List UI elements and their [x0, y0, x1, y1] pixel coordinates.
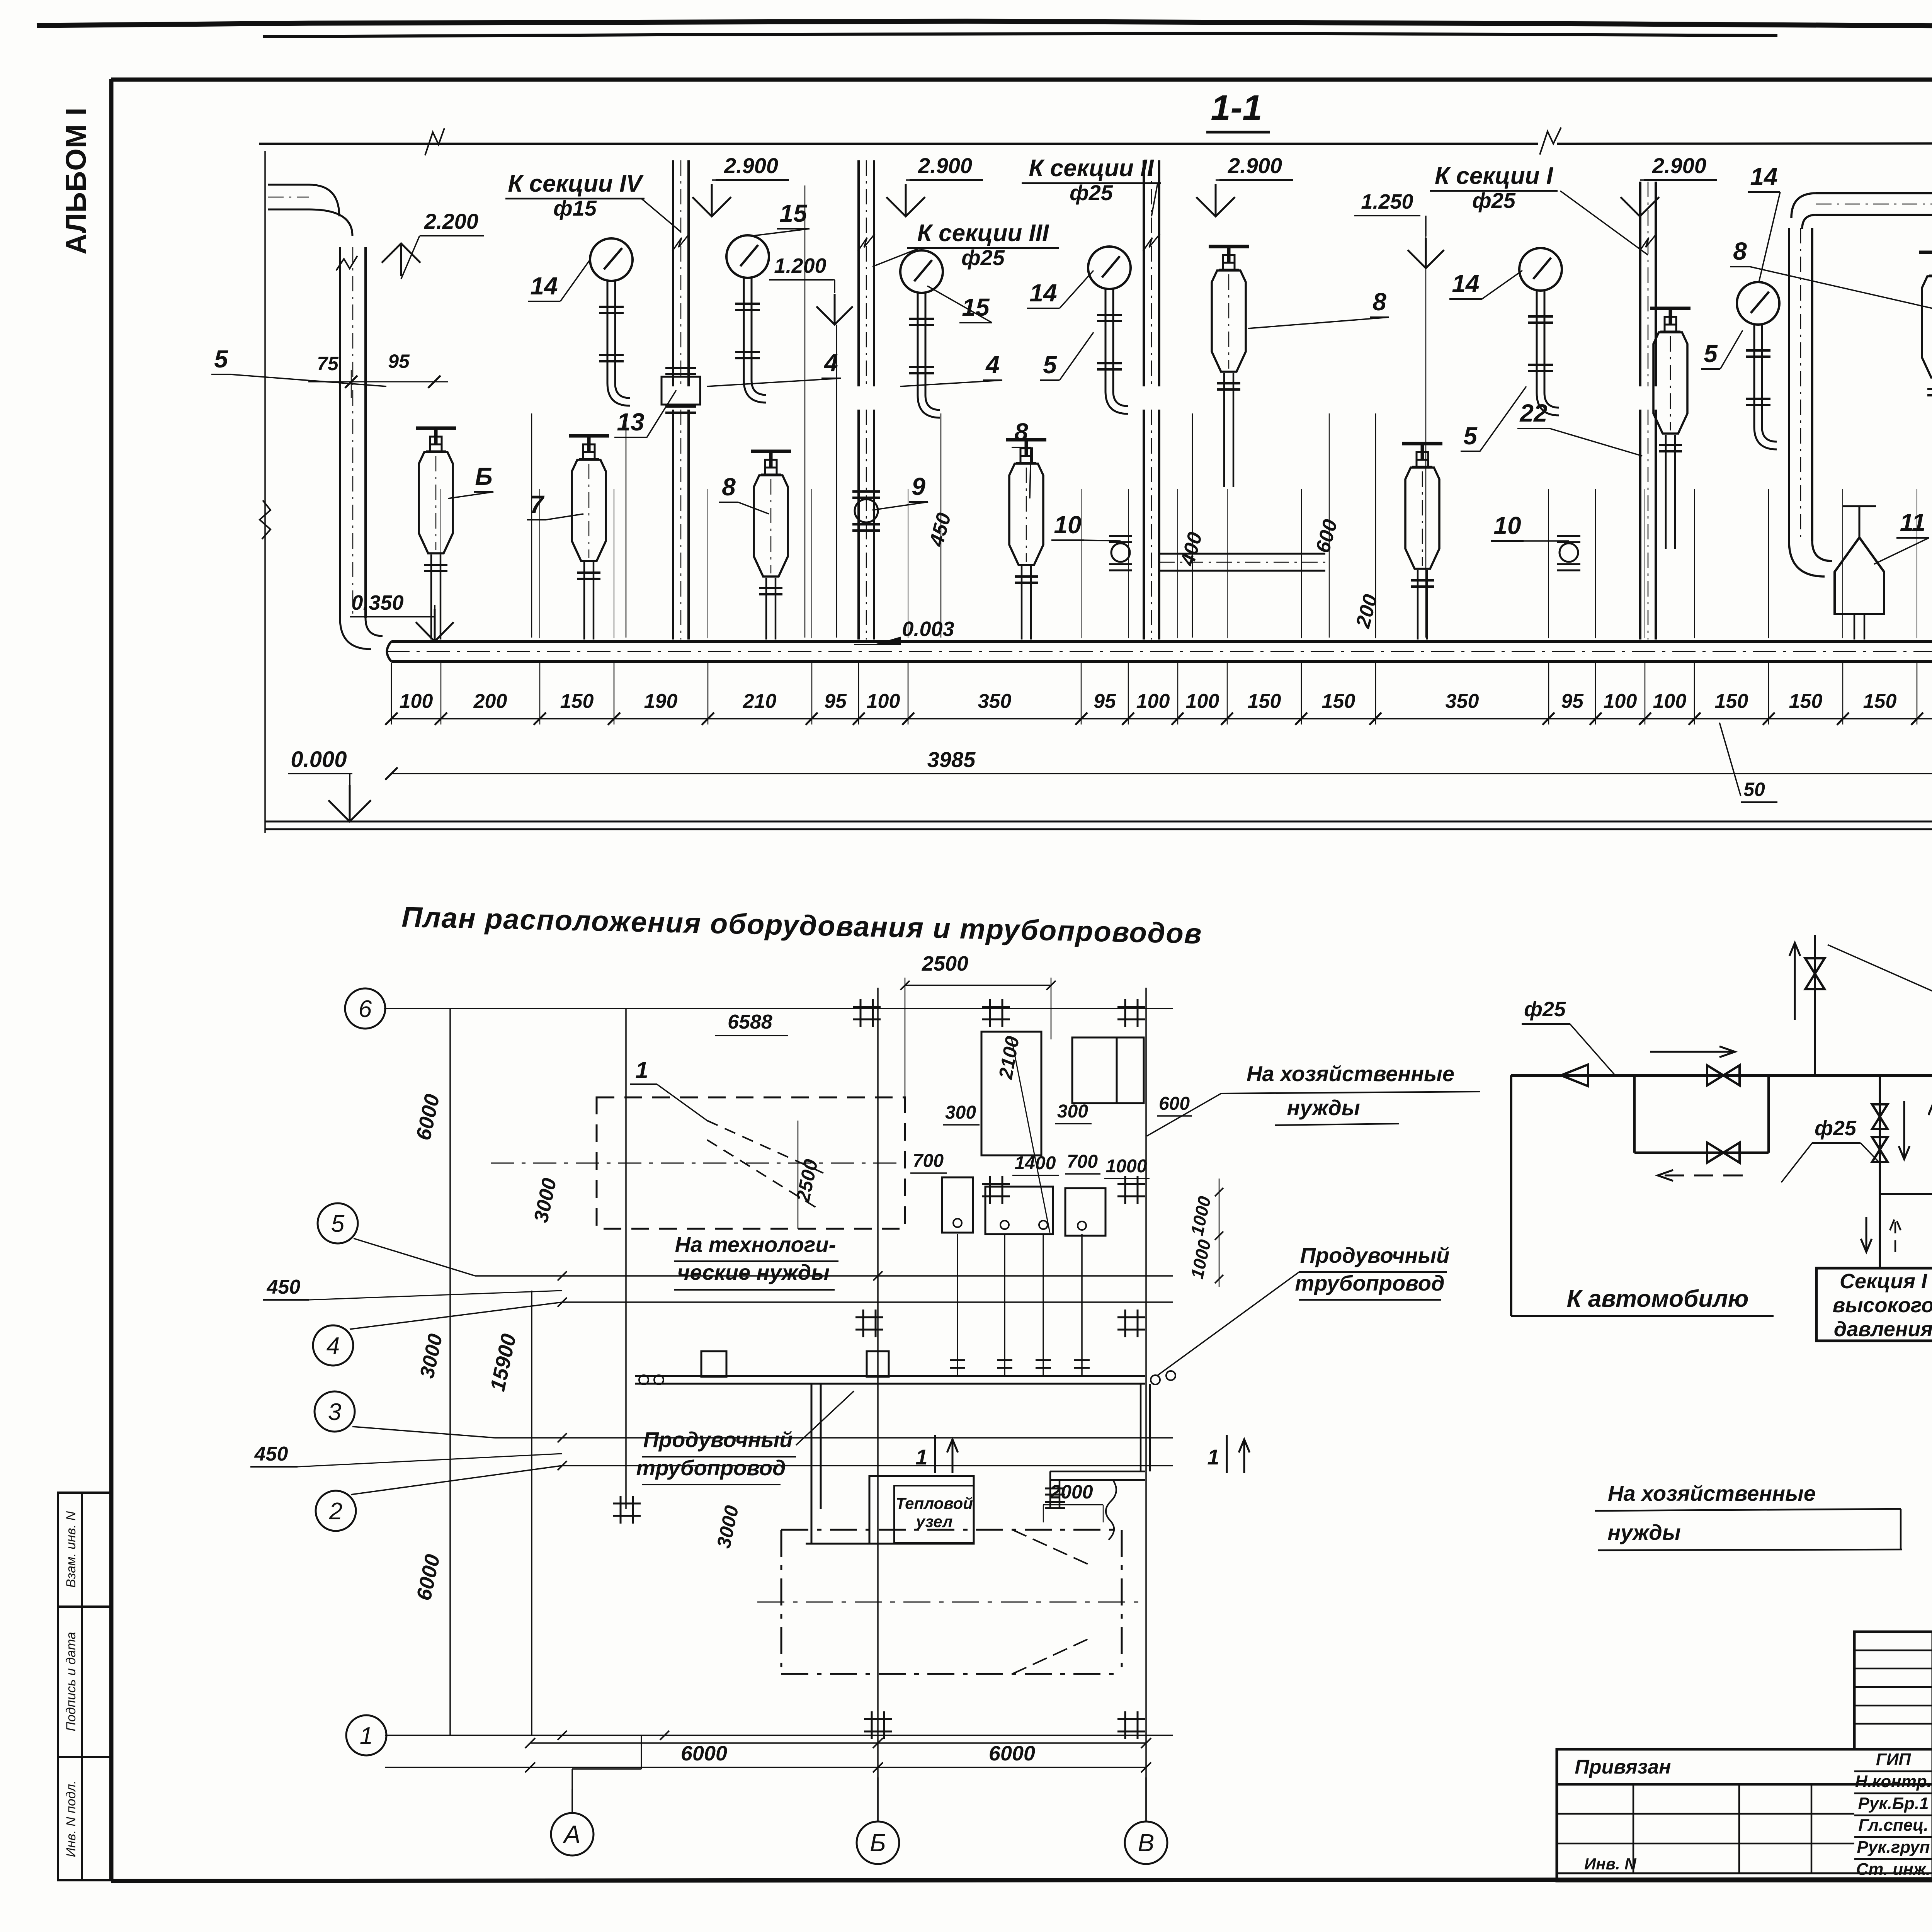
svg-text:К автомобилю: К автомобилю	[1567, 1286, 1749, 1312]
svg-text:14: 14	[1452, 270, 1479, 298]
svg-text:2.200: 2.200	[424, 209, 478, 233]
svg-text:Рук.груп: Рук.груп	[1857, 1838, 1930, 1857]
svg-text:200: 200	[473, 690, 507, 713]
svg-text:Подпись и дата: Подпись и дата	[64, 1632, 78, 1731]
svg-text:2500: 2500	[792, 1157, 822, 1204]
svg-text:Рук.Бр.1: Рук.Бр.1	[1858, 1794, 1929, 1813]
svg-text:6000: 6000	[412, 1552, 445, 1602]
svg-text:13: 13	[617, 408, 644, 436]
svg-text:75: 75	[317, 353, 339, 374]
svg-text:8: 8	[722, 473, 736, 501]
svg-text:10: 10	[1054, 511, 1081, 539]
svg-text:ф25: ф25	[1070, 180, 1113, 205]
svg-text:300: 300	[945, 1102, 976, 1123]
svg-text:трубопровод: трубопровод	[636, 1456, 786, 1480]
svg-text:нужды: нужды	[1287, 1095, 1360, 1120]
svg-text:ф25: ф25	[1472, 188, 1516, 213]
svg-text:5: 5	[214, 345, 228, 373]
svg-text:2.900: 2.900	[1652, 153, 1706, 178]
svg-text:2.900: 2.900	[724, 153, 778, 178]
svg-text:1: 1	[635, 1057, 648, 1083]
svg-text:100: 100	[1136, 690, 1170, 713]
svg-text:ГИП: ГИП	[1876, 1750, 1912, 1769]
svg-text:2000: 2000	[1049, 1481, 1093, 1503]
svg-text:8: 8	[1014, 418, 1028, 446]
svg-text:15900: 15900	[486, 1332, 520, 1393]
svg-text:1: 1	[360, 1723, 373, 1749]
svg-text:6588: 6588	[728, 1011, 772, 1033]
svg-text:600: 600	[1311, 517, 1342, 555]
svg-text:ф25: ф25	[1815, 1117, 1857, 1140]
svg-text:450: 450	[267, 1276, 301, 1298]
svg-text:К секции IV: К секции IV	[508, 170, 644, 197]
svg-text:ф25: ф25	[1524, 998, 1566, 1021]
svg-text:300: 300	[1057, 1101, 1088, 1122]
svg-text:8: 8	[1372, 288, 1386, 316]
svg-text:1: 1	[915, 1445, 927, 1469]
svg-text:6000: 6000	[412, 1092, 444, 1142]
svg-text:5: 5	[1043, 351, 1057, 379]
svg-text:95: 95	[824, 690, 847, 713]
svg-text:Тепловой: Тепловой	[896, 1494, 973, 1512]
svg-text:10: 10	[1493, 512, 1521, 539]
svg-text:700: 700	[1067, 1151, 1098, 1172]
svg-text:15: 15	[779, 199, 808, 227]
svg-text:150: 150	[1789, 690, 1823, 713]
svg-text:ф15: ф15	[553, 196, 597, 220]
svg-text:600: 600	[1159, 1094, 1190, 1114]
svg-text:Секция I: Секция I	[1840, 1270, 1927, 1293]
svg-text:1: 1	[1207, 1445, 1219, 1469]
svg-text:100: 100	[1653, 690, 1687, 713]
svg-text:9: 9	[912, 473, 925, 500]
svg-text:11: 11	[1900, 509, 1925, 536]
svg-text:На хозяйственные: На хозяйственные	[1247, 1061, 1454, 1086]
svg-text:Взам. инв. N: Взам. инв. N	[64, 1511, 78, 1588]
svg-text:100: 100	[400, 690, 433, 713]
svg-text:Инв. N: Инв. N	[1584, 1855, 1637, 1873]
svg-text:150: 150	[1322, 690, 1355, 713]
svg-text:5: 5	[1463, 422, 1478, 450]
svg-text:Продувочный: Продувочный	[1300, 1243, 1450, 1267]
svg-text:95: 95	[1561, 690, 1584, 713]
svg-text:К секции III: К секции III	[917, 220, 1049, 247]
svg-text:На хозяйственные: На хозяйственные	[1608, 1481, 1816, 1505]
svg-text:узел: узел	[915, 1512, 953, 1531]
svg-text:К секции I: К секции I	[1435, 163, 1554, 189]
svg-text:14: 14	[1750, 163, 1777, 190]
svg-text:3: 3	[328, 1399, 341, 1425]
svg-text:14: 14	[530, 272, 558, 300]
svg-text:0.350: 0.350	[351, 591, 403, 614]
svg-text:3000: 3000	[530, 1176, 561, 1225]
svg-text:Ст. инж.: Ст. инж.	[1856, 1860, 1931, 1879]
svg-text:350: 350	[978, 690, 1012, 713]
svg-text:нужды: нужды	[1607, 1520, 1680, 1544]
svg-text:В: В	[1138, 1829, 1155, 1857]
svg-text:5: 5	[331, 1211, 345, 1237]
svg-text:100: 100	[1604, 690, 1637, 713]
svg-text:95: 95	[1094, 690, 1116, 713]
svg-text:3000: 3000	[713, 1503, 743, 1550]
svg-text:450: 450	[254, 1443, 288, 1465]
svg-text:3985: 3985	[927, 747, 976, 772]
svg-text:Н.контр.: Н.контр.	[1855, 1772, 1932, 1791]
svg-text:1-1: 1-1	[1211, 88, 1262, 128]
svg-text:К секции II: К секции II	[1029, 155, 1154, 182]
svg-text:150: 150	[1863, 690, 1897, 713]
svg-text:4: 4	[327, 1333, 340, 1359]
svg-text:210: 210	[743, 690, 777, 713]
svg-text:трубопровод: трубопровод	[1295, 1271, 1444, 1295]
svg-text:15: 15	[962, 293, 990, 321]
svg-text:190: 190	[644, 690, 678, 713]
svg-text:2.900: 2.900	[1228, 153, 1282, 178]
svg-text:План расположения оборудова: План расположения оборудования и трубопр…	[401, 901, 1203, 949]
svg-text:1000: 1000	[1187, 1238, 1214, 1281]
svg-text:АЛЬБОМ I: АЛЬБОМ I	[60, 107, 92, 255]
svg-text:50: 50	[1743, 779, 1765, 800]
svg-text:Привязан: Привязан	[1575, 1756, 1671, 1778]
svg-text:22: 22	[1519, 399, 1547, 427]
svg-text:14: 14	[1029, 279, 1057, 307]
svg-text:8: 8	[1733, 237, 1747, 265]
svg-text:Б: Б	[475, 463, 492, 490]
svg-text:1.200: 1.200	[774, 254, 826, 277]
svg-text:150: 150	[1248, 690, 1281, 713]
svg-text:150: 150	[560, 690, 594, 713]
svg-text:ф25: ф25	[961, 245, 1005, 270]
svg-text:700: 700	[913, 1151, 944, 1171]
svg-text:Гл.спец.: Гл.спец.	[1858, 1816, 1928, 1835]
svg-text:1.250: 1.250	[1361, 190, 1413, 213]
svg-text:Инв. N подл.: Инв. N подл.	[64, 1781, 78, 1857]
svg-text:Продувочный: Продувочный	[643, 1427, 793, 1452]
svg-text:150: 150	[1715, 690, 1748, 713]
svg-text:А: А	[563, 1820, 581, 1848]
svg-text:200: 200	[1352, 592, 1382, 631]
svg-text:6000: 6000	[989, 1742, 1035, 1765]
svg-text:4: 4	[985, 351, 1000, 379]
svg-text:100: 100	[1186, 690, 1219, 713]
svg-text:высокого: высокого	[1833, 1294, 1932, 1317]
svg-text:0.003: 0.003	[902, 617, 954, 641]
svg-text:2: 2	[329, 1498, 342, 1525]
svg-text:На технологи-: На технологи-	[675, 1232, 836, 1257]
svg-text:3000: 3000	[416, 1332, 447, 1380]
svg-text:1000: 1000	[1106, 1156, 1147, 1177]
svg-text:100: 100	[867, 690, 900, 713]
svg-text:6: 6	[359, 996, 372, 1022]
svg-text:6000: 6000	[681, 1742, 727, 1765]
svg-text:5: 5	[1704, 340, 1718, 367]
svg-text:450: 450	[925, 510, 956, 549]
svg-text:Б: Б	[870, 1829, 886, 1857]
svg-text:ческие нужды: ческие нужды	[677, 1260, 830, 1284]
svg-text:95: 95	[388, 350, 410, 372]
svg-text:0.000: 0.000	[291, 747, 347, 772]
svg-text:1000: 1000	[1187, 1194, 1214, 1237]
svg-text:350: 350	[1446, 690, 1479, 713]
svg-text:2500: 2500	[922, 952, 968, 975]
svg-text:4: 4	[823, 349, 838, 377]
svg-text:2.900: 2.900	[918, 153, 972, 178]
svg-text:давления: давления	[1834, 1318, 1932, 1341]
